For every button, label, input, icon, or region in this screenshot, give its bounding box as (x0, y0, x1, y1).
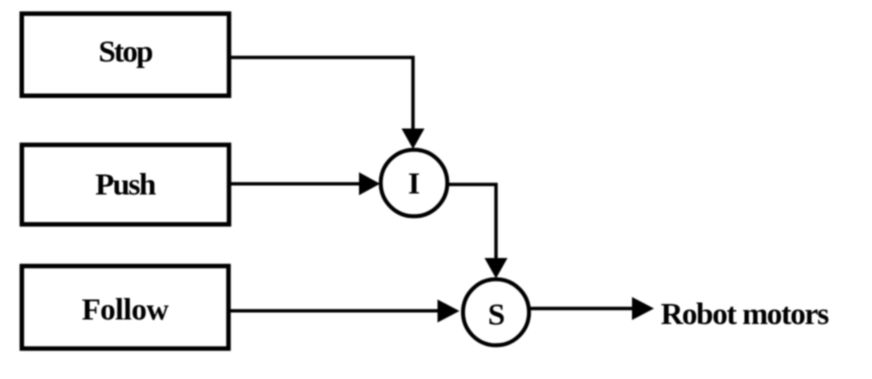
box Follow (22, 266, 229, 349)
svg-text:Stop: Stop (98, 33, 152, 68)
arrowhead into I top (402, 129, 425, 150)
svg-text:I: I (408, 166, 420, 201)
wire I to S (right then down) (447, 184, 496, 258)
node S (suppress circle) (463, 279, 529, 345)
svg-text:Follow: Follow (82, 292, 170, 327)
wire Follow to S (228, 309, 440, 312)
svg-text:Robot motors: Robot motors (661, 296, 829, 331)
arrowhead into S left (438, 300, 460, 323)
arrowhead to Robot motors (632, 297, 654, 320)
arrowhead into S top (485, 258, 508, 279)
box Push (22, 145, 229, 225)
arrowhead into I left (359, 172, 380, 195)
wire Stop to I (right then down) (229, 57, 413, 130)
svg-text:Push: Push (95, 167, 156, 202)
wire Push to I (229, 182, 360, 185)
node I (inhibit circle) (381, 150, 448, 217)
box Stop (22, 14, 229, 96)
svg-text:S: S (488, 296, 505, 331)
wire S to Robot motors (529, 307, 634, 310)
